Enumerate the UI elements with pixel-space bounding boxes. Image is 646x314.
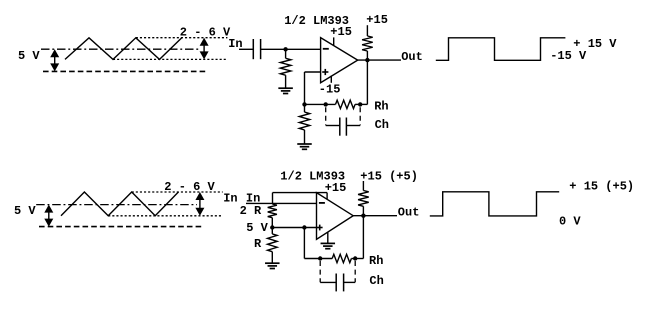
node divider (270, 225, 274, 229)
pull-up resistor R2 (top) (366, 25, 368, 36)
wire loop over to op-amp top corner (273, 192, 328, 194)
wire output down to feedback (bottom) (362, 216, 364, 259)
svg-text:Rh: Rh (374, 99, 388, 113)
svg-text:2 - 6 V: 2 - 6 V (180, 25, 231, 39)
svg-text:-15: -15 (319, 83, 341, 97)
wire plus input down to feedback node (304, 72, 306, 104)
ground (plus node resistor) (297, 143, 312, 145)
wire output node down to feedback (366, 60, 368, 104)
feedback wire right segment (355, 103, 367, 105)
5 V amplitude arrow (top) (54, 51, 56, 69)
svg-text:5 V: 5 V (18, 49, 40, 63)
pull-up resistor (bottom) (362, 181, 364, 191)
feedback wire left segment (bottom) (304, 258, 332, 260)
zero volt dashed line (top) (43, 70, 206, 72)
node input junction (283, 47, 287, 51)
ground tick (U1b) (327, 232, 329, 243)
resistor R to ground (271, 228, 273, 234)
peak reference dotted line (top) (136, 37, 228, 39)
svg-text:+15: +15 (366, 13, 388, 27)
2 - 6 V range arrow (bottom) (199, 194, 201, 214)
dashed drop right (Ch top) (359, 107, 361, 125)
resistor Rh (bottom) (332, 254, 351, 262)
-15 supply tick (U1a) (330, 76, 332, 83)
feedback wire right segment (bottom) (351, 258, 363, 260)
svg-text:Out: Out (401, 50, 423, 64)
minus input marker (U1b) (319, 202, 325, 204)
input triangle waveform (top) (65, 38, 182, 60)
svg-text:Out: Out (398, 205, 420, 219)
minus input marker (323, 48, 329, 50)
output wire (bottom) (353, 215, 397, 217)
svg-text:-15 V: -15 V (550, 49, 587, 63)
peak reference dotted line (bottom) (132, 191, 223, 193)
plus input marker (322, 71, 328, 73)
dashed drop left (Ch top) (325, 107, 327, 125)
svg-text:Ch: Ch (375, 118, 389, 132)
svg-text:Rh: Rh (369, 254, 383, 268)
dashed drop right (Ch bottom) (354, 261, 356, 282)
ground (input resistor) (278, 87, 293, 89)
svg-text:+15: +15 (330, 25, 352, 39)
input triangle waveform (bottom) (61, 192, 178, 216)
capacitor Ch (bottom) (320, 281, 336, 283)
trough reference dotted line (bottom) (108, 215, 223, 217)
svg-text:5 V: 5 V (246, 221, 268, 235)
feedback wire left segment (305, 103, 336, 105)
op-amp U1b triangle (317, 193, 354, 240)
node output (bottom) (361, 214, 365, 218)
node Rh left (324, 102, 328, 106)
center dash-dot reference line (bottom) (36, 204, 197, 206)
coupling capacitor C1 (252, 39, 254, 59)
resistor 2R (268, 204, 277, 218)
2 - 6 V range arrow (top) (203, 40, 205, 58)
zero volt dashed line (bottom) (39, 226, 202, 228)
svg-text:+ 15 (+5): + 15 (+5) (569, 180, 634, 194)
input wire to inverting input (bottom) (246, 202, 317, 204)
output wire (top) (358, 59, 401, 61)
node output (top) (365, 58, 369, 62)
svg-text:5 V: 5 V (14, 204, 36, 218)
svg-text:In: In (223, 191, 237, 205)
node Rh left (bottom) (318, 256, 322, 260)
node feedback tap (bottom) (302, 225, 306, 229)
feedback wire down from 5V node (303, 228, 305, 259)
svg-text:R: R (254, 237, 262, 251)
trough reference dotted line (top) (113, 58, 227, 60)
+15 supply tick (U1a) (333, 37, 335, 45)
resistor R3 to ground from plus node (304, 104, 306, 112)
wire plus input (305, 71, 321, 73)
svg-text:+15 (+5): +15 (+5) (360, 169, 418, 183)
output square wave (top) (436, 38, 566, 61)
op-amp U1a triangle (321, 38, 358, 83)
svg-text:1/2 LM393: 1/2 LM393 (280, 169, 345, 183)
ground (divider resistor) (265, 262, 280, 264)
output square wave (bottom) (430, 192, 559, 216)
center dash-dot reference line (top) (41, 48, 200, 50)
svg-text:0 V: 0 V (559, 214, 581, 228)
svg-text:2 R: 2 R (240, 204, 262, 218)
resistor Rh (top) (336, 100, 356, 108)
5V divider wire (272, 227, 316, 229)
5 V amplitude arrow (bottom) (48, 207, 50, 225)
wire cap to op-amp inverting input (261, 48, 321, 50)
svg-text:2 - 6 V: 2 - 6 V (164, 180, 215, 194)
capacitor Ch (top) (326, 125, 340, 127)
ground (U1b) (321, 242, 336, 244)
svg-text:Ch: Ch (369, 274, 383, 288)
wire In to coupling cap (239, 48, 253, 50)
resistor R1 input to ground (285, 49, 287, 58)
plus input marker (U1b) (317, 227, 323, 229)
node Rh right (358, 102, 362, 106)
node Rh right (bottom) (353, 256, 357, 260)
dashed drop left (Ch bottom) (319, 261, 321, 282)
node feedback left (302, 102, 306, 106)
